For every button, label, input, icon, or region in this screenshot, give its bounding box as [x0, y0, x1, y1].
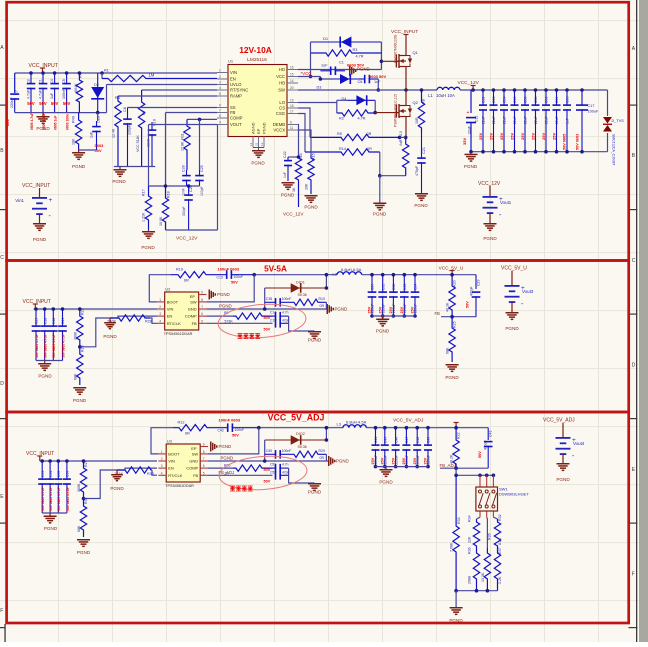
svg-text:C52: C52 [270, 471, 276, 475]
svg-text:VIN: VIN [168, 459, 175, 464]
resistor R10 0R [291, 299, 326, 305]
svg-text:R15: R15 [312, 153, 316, 160]
svg-text:10K: 10K [305, 183, 309, 190]
compensation ellipse sec3 [218, 453, 308, 492]
svg-text:0R: 0R [367, 147, 372, 151]
wire FB row [166, 112, 218, 114]
svg-text:C31: C31 [381, 284, 385, 290]
svg-text:DSWB03LHGET: DSWB03LHGET [499, 492, 529, 497]
svg-text:C36: C36 [534, 97, 538, 103]
compensation ellipse sec2 [217, 301, 307, 340]
svg-text:C50: C50 [266, 449, 272, 453]
svg-text:R35: R35 [488, 533, 492, 540]
svg-text:Vout4: Vout4 [573, 441, 585, 446]
junction dot bottom rail [96, 111, 100, 115]
svg-text:100uF: 100uF [588, 110, 599, 114]
svg-text:C11: C11 [555, 97, 559, 103]
svg-text:R2: R2 [339, 117, 344, 121]
wire C22 top [288, 156, 299, 158]
svg-text:COMP: COMP [185, 314, 197, 319]
svg-text:11: 11 [290, 126, 294, 130]
junction dot R23/R24 [78, 345, 82, 349]
svg-text:PGND: PGND [36, 126, 50, 131]
svg-text:19: 19 [290, 98, 294, 102]
resistor R30 101K [117, 467, 152, 473]
net tick VCC_INPUT [42, 68, 44, 73]
wire D4/R2 right node [374, 100, 376, 112]
svg-text:Vin1: Vin1 [15, 198, 24, 203]
wire R40/C20 join [79, 149, 97, 151]
svg-text:U1: U1 [228, 59, 234, 64]
svg-text:HB: HB [279, 81, 285, 86]
wire comp join sec3 [289, 468, 315, 483]
svg-text:VCC_5V_U: VCC_5V_U [501, 266, 527, 272]
wire SW node column sec3 [325, 428, 327, 440]
svg-text:R6: R6 [115, 96, 120, 100]
ground PGND R40 [78, 150, 80, 152]
svg-text:FB: FB [230, 110, 236, 115]
svg-text:0805 1uF: 0805 1uF [53, 115, 57, 130]
capacitor C44 sec3 output [374, 426, 378, 430]
svg-text:50V: 50V [39, 101, 47, 106]
svg-text:6.8uH-6.5A: 6.8uH-6.5A [341, 267, 362, 272]
battery Vout3 [511, 271, 513, 285]
wire VCC row [298, 76, 320, 78]
svg-text:C8: C8 [123, 107, 127, 112]
svg-text:3: 3 [161, 464, 163, 468]
capacitor C13 100nF [222, 274, 227, 276]
junction dot gate Q1 [380, 60, 384, 64]
svg-text:R23: R23 [81, 308, 85, 315]
svg-text:VCC_5V_ADJ: VCC_5V_ADJ [543, 418, 575, 424]
svg-text:68K: 68K [77, 525, 81, 532]
capacitor C1 [42, 73, 44, 84]
svg-text:50V: 50V [264, 328, 271, 332]
wire C6 to SW rail [377, 79, 379, 90]
svg-text:R14: R14 [339, 147, 346, 151]
svg-text:PGND: PGND [219, 304, 232, 309]
capacitor C54 sec3 input [48, 459, 52, 463]
ground PGND R30 [116, 470, 118, 474]
capacitor C11 output bank [556, 90, 558, 106]
ground PGND Vin1 [33, 223, 46, 225]
svg-text:22uF: 22uF [513, 116, 517, 124]
svg-text:SK36: SK36 [298, 293, 307, 297]
svg-text:RAMP: RAMP [230, 94, 242, 99]
svg-text:D: D [0, 381, 4, 387]
svg-text:10.0K: 10.0K [159, 216, 163, 226]
wire COMP row [187, 118, 217, 120]
wire SW riser sec3 [208, 428, 259, 454]
svg-text:4.7uF: 4.7uF [27, 89, 31, 99]
svg-text:C1: C1 [39, 79, 43, 84]
section frame VCC_5V_ADJ [7, 412, 629, 623]
battery Vout4 [562, 423, 564, 437]
wire Q1 gate row [381, 60, 398, 62]
resistor R24 68K [77, 347, 83, 385]
wire bank bottom rail [471, 151, 608, 153]
svg-text:25V: 25V [478, 133, 483, 140]
svg-text:C29: C29 [477, 280, 481, 286]
ground PGND R15 [305, 195, 318, 197]
svg-text:100nF: 100nF [235, 428, 245, 432]
svg-text:VCC_INPUT: VCC_INPUT [22, 183, 50, 189]
capacitor C34 sec2 output [413, 273, 417, 277]
svg-text:68K: 68K [446, 347, 450, 354]
capacitor C10 output bank [545, 90, 547, 106]
resistor R17 1.21K [145, 186, 151, 229]
svg-text:25V: 25V [520, 133, 525, 140]
svg-text:PGND: PGND [308, 490, 322, 495]
capacitor C21 470pF [421, 132, 423, 159]
svg-text:4.7n: 4.7n [282, 311, 289, 315]
svg-text:100nF 0603: 100nF 0603 [219, 418, 241, 423]
svg-text:330pF: 330pF [182, 206, 186, 216]
ground PGND Vout3 [506, 312, 519, 314]
capacitor C32 sec2 output [392, 273, 396, 277]
capacitor C43 470pF [487, 428, 489, 440]
svg-text:C2: C2 [27, 79, 31, 84]
svg-text:470pF: 470pF [484, 440, 488, 450]
wire bank right edge [607, 90, 609, 116]
svg-text:VIN: VIN [230, 70, 237, 75]
ground PGND network [450, 607, 463, 609]
junction dots SW rail [404, 88, 408, 92]
svg-text:C26: C26 [189, 185, 193, 192]
svg-text:C7: C7 [14, 89, 19, 95]
svg-text:EN: EN [168, 466, 174, 471]
resistor R14 0R [305, 149, 380, 155]
svg-text:PGND: PGND [251, 161, 265, 166]
svg-text:Vout1: Vout1 [500, 200, 512, 205]
inductor L1 10uH 10A [437, 87, 460, 90]
resistor R18 10.0K [162, 186, 168, 230]
wire bootstrap node to SW riser [254, 274, 337, 276]
wire VOUT column [148, 125, 150, 187]
right gray outside area [639, 0, 648, 642]
svg-text:UVLO: UVLO [230, 82, 242, 87]
svg-text:VCC_12V: VCC_12V [283, 212, 304, 217]
svg-text:0603 100n: 0603 100n [65, 114, 69, 130]
resistor R22 40.2K [453, 428, 459, 469]
svg-text:RT/CLK: RT/CLK [167, 321, 181, 326]
svg-text:PGND: PGND [33, 237, 47, 242]
svg-text:R32: R32 [498, 514, 502, 521]
svg-text:1uF: 1uF [566, 118, 570, 124]
svg-text:220pF: 220pF [128, 124, 132, 135]
svg-text:21: 21 [254, 142, 258, 146]
svg-text:PGND: PGND [304, 205, 318, 210]
diode D2 [97, 73, 99, 113]
section frame 12V-10A [7, 2, 629, 260]
svg-text:C21: C21 [422, 147, 426, 154]
ground PGND R31 [77, 539, 90, 541]
svg-text:C30: C30 [371, 284, 375, 290]
svg-text:300K: 300K [74, 331, 78, 340]
wire FB_ADJ row [440, 467, 488, 469]
svg-text:Q2: Q2 [413, 100, 419, 105]
wire Q1 drain [405, 39, 407, 52]
ground PGND sec2 output [382, 316, 384, 319]
svg-text:C18: C18 [43, 318, 47, 324]
wire SW riser sec2 [207, 275, 255, 302]
svg-text:C48: C48 [416, 437, 420, 443]
wire HO row [298, 69, 381, 71]
svg-text:12.4K: 12.4K [112, 128, 116, 138]
svg-text:22uF: 22uF [545, 116, 549, 124]
wire EN row sec3 [117, 468, 157, 470]
wire FB row sec2 [207, 322, 273, 324]
svg-text:C: C [632, 258, 636, 264]
svg-text:0R: 0R [367, 132, 372, 136]
resistor R35 13.3K [484, 548, 490, 591]
svg-text:PGND: PGND [449, 618, 463, 623]
wire CSG row [298, 114, 305, 153]
svg-text:25V: 25V [391, 457, 395, 464]
U1 left pin stubs [217, 72, 228, 74]
wire bootstrap node to SW riser sec3 [259, 427, 343, 429]
capacitor C13 output bank [493, 90, 495, 106]
svg-text:18: 18 [290, 104, 294, 108]
resistor R36 2988 [473, 548, 479, 591]
svg-text:L3: L3 [337, 422, 342, 427]
svg-text:15: 15 [290, 72, 294, 76]
resistor R12 6R [173, 425, 223, 431]
capacitor C5 [66, 73, 68, 84]
resistor R15 10K [308, 155, 314, 194]
wire D2 column to C20 [97, 113, 99, 121]
capacitor C31 sec2 output [381, 273, 385, 277]
capacitor C2 [30, 73, 32, 84]
ground PGND C22 [282, 182, 295, 184]
wire R29 to ground join sec3 [325, 454, 327, 461]
svg-text:R27: R27 [84, 460, 88, 467]
svg-text:C11: C11 [475, 116, 479, 122]
wire mid rail y186 [149, 185, 200, 187]
wire DEMB row [297, 125, 300, 158]
net tick VCC_INPUT sec3 [39, 456, 41, 461]
svg-text:C13: C13 [492, 97, 496, 103]
svg-text:VOUT: VOUT [230, 122, 242, 127]
wire TVS to bottom rail [607, 133, 609, 152]
wire R27 junction to EN sec3 [84, 470, 118, 499]
svg-text:R5: R5 [337, 132, 342, 136]
svg-text:C15: C15 [513, 97, 517, 103]
ground PGND sec2 input [44, 361, 46, 364]
section frame 5V-5A [7, 261, 629, 413]
resistor R25 68K [449, 317, 455, 362]
svg-text:EN: EN [230, 77, 236, 82]
svg-text:50V 0805 4.7uF: 50V 0805 4.7uF [41, 487, 45, 511]
svg-text:*VCC: *VCC [301, 71, 312, 76]
svg-text:1.21K: 1.21K [142, 212, 146, 222]
svg-text:17.8K R11: 17.8K R11 [181, 133, 185, 151]
capacitor C42 100nF [223, 427, 228, 429]
svg-text:C1: C1 [339, 61, 344, 65]
wire output rail sec3 [366, 427, 488, 429]
svg-text:PGND: PGND [73, 398, 87, 403]
svg-text:1uF: 1uF [50, 92, 54, 99]
svg-text:R29: R29 [319, 449, 325, 453]
svg-text:C35: C35 [524, 97, 528, 103]
resistor R11 17.8K [184, 119, 190, 170]
resistor R2 4.7R [336, 103, 338, 114]
svg-text:50V 0805 4.7uF: 50V 0805 4.7uF [35, 334, 39, 358]
svg-text:50V 0805 4.7uF: 50V 0805 4.7uF [57, 487, 61, 511]
svg-text:10R: 10R [415, 117, 419, 124]
svg-text:R20: R20 [453, 280, 457, 287]
svg-text:C47: C47 [405, 437, 409, 443]
svg-text:SW: SW [278, 88, 285, 93]
svg-text:PGND: PGND [219, 444, 232, 449]
svg-text:470pF: 470pF [415, 165, 419, 176]
svg-text:PGND: PGND [464, 164, 478, 169]
ground PGND Vout4 [557, 463, 570, 465]
ground PGND Vout1 [484, 223, 497, 225]
svg-text:C4: C4 [50, 79, 54, 84]
resistor R6 12.4K [115, 96, 121, 167]
svg-text:C32: C32 [392, 284, 396, 290]
zone ticks left [0, 105, 6, 106]
svg-text:COMP: COMP [186, 466, 198, 471]
svg-text:4.7R: 4.7R [356, 55, 364, 59]
svg-text:12: 12 [249, 142, 253, 146]
svg-text:PGND: PGND [556, 477, 570, 482]
resistor R29 0R [291, 451, 326, 457]
junction dot COMP [198, 118, 202, 122]
svg-text:68K: 68K [74, 373, 78, 380]
svg-text:0R: 0R [320, 456, 325, 460]
capacitor C41 sec2 input [61, 307, 65, 311]
svg-text:COMP: COMP [230, 116, 243, 121]
svg-text:PGND: PGND [44, 526, 58, 531]
wire DIO1 anode column [264, 288, 266, 309]
svg-text:PGND: PGND [376, 329, 390, 334]
svg-text:6R: 6R [184, 279, 189, 283]
svg-text:300K: 300K [77, 483, 81, 492]
svg-text:SW: SW [190, 300, 197, 305]
svg-text:AGND: AGND [251, 122, 256, 134]
svg-text:C48: C48 [52, 318, 56, 324]
svg-text:R17: R17 [142, 189, 146, 196]
svg-text:50V: 50V [466, 301, 470, 308]
svg-text:25V: 25V [488, 133, 493, 140]
svg-text:25V: 25V [389, 306, 393, 313]
svg-text:50V 0805: 50V 0805 [563, 134, 567, 150]
svg-text:17: 17 [290, 109, 294, 113]
svg-text:HO: HO [279, 67, 286, 72]
resistor R33 7.68K [453, 475, 459, 590]
svg-text:5: 5 [219, 92, 221, 96]
wire VCCX row [298, 130, 311, 155]
svg-text:40.2K: 40.2K [446, 302, 450, 312]
svg-text:PGND: PGND [308, 338, 322, 343]
wire BOOT riser sec2 [149, 275, 171, 302]
regulator U3 TPS54561DDAR [166, 444, 200, 482]
svg-text:3: 3 [159, 312, 161, 316]
svg-text:5: 5 [203, 471, 205, 475]
svg-text:2: 2 [159, 305, 161, 309]
svg-text:R30: R30 [147, 472, 154, 476]
svg-text:PGND: PGND [336, 459, 349, 464]
resistor R31 68K [80, 499, 86, 538]
svg-text:50V: 50V [27, 101, 35, 106]
wire C25 column [199, 119, 201, 170]
capacitor C55 sec3 input [57, 459, 61, 463]
capacitor C26 330pF [188, 186, 190, 196]
svg-text:C55: C55 [57, 471, 61, 477]
svg-text:R36: R36 [468, 547, 472, 554]
wire output bottom rail sec3 [376, 466, 429, 468]
wire input bus [15, 72, 217, 74]
svg-text:C42: C42 [218, 428, 224, 432]
resistor R7 511K [138, 90, 144, 167]
ground PGND U1 [253, 148, 264, 151]
svg-text:PGND: PGND [110, 486, 124, 491]
capacitor C19 sec2 input [34, 307, 38, 311]
capacitor C18 sec2 input [43, 307, 47, 311]
svg-text:PGND: PGND [281, 193, 295, 198]
svg-text:PGND: PGND [77, 550, 91, 555]
svg-text:R8: R8 [422, 99, 426, 104]
junction dots mid rail [164, 184, 168, 188]
wire 22uF column [470, 90, 472, 113]
svg-text:C5: C5 [62, 79, 66, 84]
svg-text:25V: 25V [551, 133, 556, 140]
svg-text:R28: R28 [145, 320, 152, 324]
svg-text:22uF: 22uF [524, 116, 528, 124]
svg-text:4.7uF: 4.7uF [39, 89, 43, 99]
wire BOOT riser sec3 [151, 428, 173, 454]
capacitor C4 [54, 73, 56, 84]
wire analog bottom rail [114, 166, 155, 168]
wire switch pin2 column [486, 517, 489, 548]
resistor R37 1.2K [494, 548, 500, 591]
battery Vin1 [39, 188, 41, 197]
svg-text:PGND: PGND [112, 179, 126, 184]
svg-text:C43: C43 [489, 431, 493, 437]
svg-text:9: 9 [219, 121, 221, 125]
wire sec3 input caps bottom [42, 512, 67, 514]
capacitor C16 output bank [566, 90, 568, 106]
svg-text:25V: 25V [424, 457, 428, 464]
svg-text:PGND: PGND [445, 375, 459, 380]
resistor R27 300K [82, 459, 86, 463]
svg-text:C45: C45 [384, 437, 388, 443]
svg-text:10K: 10K [72, 138, 76, 145]
capacitor C12 output bank [482, 90, 484, 106]
svg-text:1uF: 1uF [283, 172, 287, 178]
svg-text:PGND: PGND [141, 245, 155, 250]
ground PGND 22uF [465, 154, 478, 156]
svg-text:2988: 2988 [468, 576, 472, 584]
svg-text:EP: EP [191, 446, 197, 451]
svg-text:C16: C16 [566, 97, 570, 103]
capacitor C29 470pF [475, 275, 477, 289]
svg-text:7: 7 [203, 457, 205, 461]
svg-text:25V: 25V [541, 133, 546, 140]
svg-text:50V: 50V [264, 480, 271, 484]
svg-text:25V: 25V [371, 457, 375, 464]
capacitor C35 100nF snubber [265, 301, 277, 303]
svg-text:PGND: PGND [103, 334, 117, 339]
svg-text:C22: C22 [283, 151, 287, 158]
junction dots switch top [478, 474, 482, 478]
svg-text:6.8uH-4.5A: 6.8uH-4.5A [346, 420, 367, 425]
wire R23 junction to EN [80, 318, 110, 347]
capacitor C14 4.7nF [273, 315, 277, 317]
ground PGND R25 [446, 364, 459, 366]
